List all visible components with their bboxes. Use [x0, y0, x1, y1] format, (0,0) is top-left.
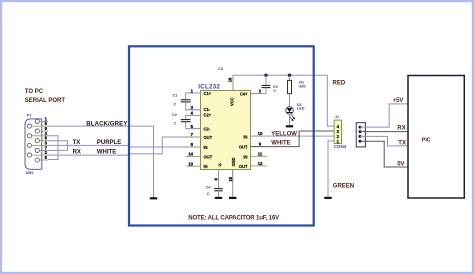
wire TX from J2 pin3 to PIC: [360, 136, 408, 146]
wire 0V from J2 pin4 to PIC: [360, 141, 408, 167]
svg-text:V-: V-: [218, 162, 223, 167]
chip bottom pin15 stub: [232, 170, 234, 197]
ground bar under pin15: [229, 197, 236, 199]
svg-text:13: 13: [188, 161, 193, 166]
svg-text:PURPLE: PURPLE: [97, 140, 121, 146]
svg-text:IN: IN: [204, 145, 208, 150]
capacitor C5 plates: [262, 85, 271, 87]
svg-text:12: 12: [258, 161, 263, 166]
svg-text:TO PC: TO PC: [25, 89, 44, 95]
svg-text:16: 16: [227, 77, 232, 82]
svg-text:CON4: CON4: [334, 144, 347, 149]
wire +5V from J2 pin1 to PIC: [360, 104, 408, 127]
capacitor C4 plates: [214, 188, 222, 190]
svg-text:VCC: VCC: [230, 97, 235, 106]
svg-text:C: C: [174, 121, 177, 125]
svg-text:GREEN: GREEN: [333, 184, 354, 190]
svg-text:OUT: OUT: [239, 145, 248, 150]
svg-text:C3: C3: [218, 67, 223, 71]
right pin numbers: [258, 131, 263, 166]
ground bar under GREEN: [324, 197, 331, 199]
wire: serial ground BLACK/GREY horizontal: [48, 125, 154, 127]
svg-text:PIC: PIC: [422, 137, 431, 143]
svg-text:11: 11: [258, 151, 263, 156]
wire chip pin10 to CON4 pin2 (YELLOW): [251, 135, 335, 137]
DB9 pin circles right column: [35, 119, 39, 162]
svg-text:LED: LED: [297, 106, 305, 110]
chip bottom pin6 stub: [218, 170, 220, 189]
wire LED to ground: [289, 114, 291, 125]
svg-text:C: C: [273, 89, 276, 93]
svg-text:C1: C1: [173, 94, 178, 98]
wire: DB9 jumper loop pins 8-7: [48, 141, 68, 151]
svg-text:10: 10: [258, 131, 263, 136]
svg-text:RED: RED: [333, 81, 346, 87]
ground bar under BLACK/GREY drop: [150, 197, 157, 199]
capacitor C1 loop pins 1-3: [186, 93, 201, 99]
DB9 pin stubs: [32, 121, 49, 160]
LED D1 cathode bar: [287, 112, 292, 114]
svg-text:C2-: C2-: [204, 126, 211, 131]
junction dot at R1 branch: [288, 74, 291, 77]
svg-text:GND: GND: [231, 157, 236, 166]
chip stub overlays olive: [186, 77, 264, 183]
capacitor C5 stub top: [265, 75, 267, 85]
svg-text:IN: IN: [204, 164, 208, 169]
svg-text:J1: J1: [335, 115, 339, 119]
connector P1 DB9 body: [25, 119, 42, 169]
svg-text:RX: RX: [397, 125, 405, 131]
LED emission arrows: [290, 115, 295, 121]
svg-text:+5V: +5V: [393, 98, 404, 104]
svg-text:ICL232: ICL232: [198, 83, 220, 90]
left pin numbers: [188, 88, 193, 166]
C4 bottom stub: [218, 191, 220, 197]
svg-text:YELLOW: YELLOW: [271, 131, 297, 137]
svg-text:IN: IN: [243, 154, 247, 159]
svg-text:C1-: C1-: [204, 107, 211, 112]
svg-text:0V: 0V: [397, 161, 404, 167]
svg-text:C2: C2: [172, 113, 177, 117]
svg-text:NOTE: ALL CAPACITOR 1uF, 16V: NOTE: ALL CAPACITOR 1uF, 16V: [188, 216, 279, 222]
svg-text:IN: IN: [243, 134, 247, 139]
svg-text:C1+: C1+: [204, 91, 212, 96]
wire GREEN from CON4 pin1 to ground: [328, 141, 334, 197]
PIC box: [408, 76, 464, 199]
svg-text:P1: P1: [27, 114, 32, 118]
svg-text:TX: TX: [73, 140, 81, 146]
svg-text:C: C: [174, 103, 177, 107]
chip stubs pins 14 13 left: [186, 156, 201, 158]
wire: RX white run (DB9 side): [48, 137, 201, 155]
svg-text:OUT: OUT: [204, 155, 213, 160]
svg-text:C4+: C4+: [240, 92, 248, 97]
wire RX from J2 pin2 to PIC: [360, 131, 408, 133]
DB9 pin numbers: [45, 116, 48, 160]
wire: ground drop from BLACK/GREY: [153, 126, 155, 197]
svg-text:WHITE: WHITE: [271, 141, 290, 147]
ground bar under LED: [286, 125, 293, 127]
junction dot at C5 branch: [264, 74, 267, 77]
LED D1 circle: [286, 107, 294, 115]
wire: VCC rail from pin16 to RED drop: [233, 75, 334, 126]
resistor R1 stub: [289, 75, 291, 80]
wire chip pin9 WHITE to CON4 pin3: [251, 131, 335, 147]
LED D1 triangle: [287, 108, 293, 112]
J2 pin dots: [359, 126, 362, 143]
svg-text:BLACK/GREY: BLACK/GREY: [86, 122, 127, 128]
connector CON4 body: [334, 120, 341, 143]
svg-text:C2+: C2+: [204, 113, 212, 118]
frame box: [129, 46, 314, 225]
chip stubs pins 11 12 right: [251, 155, 268, 157]
svg-text:OUT: OUT: [204, 135, 213, 140]
svg-text:DB9: DB9: [26, 171, 34, 175]
svg-text:TX: TX: [398, 141, 406, 147]
capacitor C2 loop pins 4-5: [186, 115, 201, 119]
connector J2 female header body: [356, 123, 365, 147]
svg-text:15: 15: [228, 176, 233, 181]
IC U1 ICL232 body: [201, 91, 251, 170]
svg-text:SERIAL PORT: SERIAL PORT: [25, 98, 66, 104]
svg-text:OUT: OUT: [239, 164, 248, 169]
CON4 pin digits: [337, 124, 340, 144]
DB9 pin circles left column: [27, 124, 31, 157]
svg-text:14: 14: [188, 152, 193, 157]
svg-text:WHITE: WHITE: [97, 149, 116, 155]
svg-text:C: C: [207, 192, 210, 196]
capacitor C5 bottom stub to pin 2: [251, 88, 267, 94]
svg-text:RX: RX: [73, 149, 81, 155]
svg-text:680: 680: [299, 85, 305, 89]
wire R1 to LED: [289, 94, 291, 107]
ground bar under C4: [215, 197, 222, 199]
resistor R1 body: [288, 80, 292, 93]
wire: TX purple run (DB9 side): [48, 145, 201, 147]
wire: DB9 jumper loop pins 4-6: [48, 136, 58, 160]
